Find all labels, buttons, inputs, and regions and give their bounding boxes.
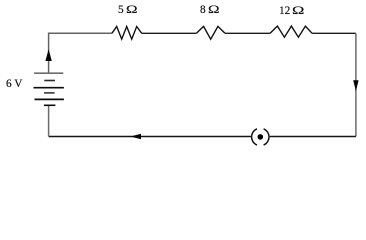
value label 12 ohm for R3: [279, 6, 290, 17]
wire: top rail left segment (top-left corner to R1): [49, 33, 112, 73]
wire: battery bottom stub: [48, 105, 50, 136]
battery B1 plate 6 short (bottom, negative): [44, 104, 56, 106]
wire: top rail R3 to top-right corner: [312, 32, 356, 34]
wire: top rail between R2 and R3: [225, 32, 270, 34]
wire: bottom rail right segment (meter to bottom-right corner): [270, 136, 356, 138]
current direction arrow down (right branch): [353, 80, 358, 91]
wire: right vertical (top-right corner down to bottom rail): [355, 33, 357, 136]
wire: bottom rail left segment (battery to meter): [49, 136, 251, 138]
resistor R3 12 ohm zigzag: [270, 26, 312, 37]
battery B1 plate 3 long: [34, 87, 64, 89]
ammeter M1 circle left arc: [252, 129, 257, 145]
value label 5 ohm for R1: [118, 5, 124, 16]
ammeter M1 center dot: [258, 134, 264, 140]
value label 8 ohm for R2: [200, 5, 206, 16]
current direction arrow up (left branch): [45, 49, 51, 61]
battery B1 plate 4 short: [44, 92, 55, 94]
wire: top rail between R1 and R2: [142, 32, 197, 34]
battery B1 plate 5 long: [35, 98, 64, 100]
value label 6 V for battery B1: [6, 79, 22, 90]
battery B1 plate 2 short: [44, 80, 55, 82]
resistor R1 5 ohm zigzag: [112, 27, 142, 40]
resistor R2 8 ohm zigzag: [196, 26, 225, 39]
current direction arrow left (bottom branch): [130, 134, 141, 140]
ammeter M1 circle right arc: [264, 129, 269, 145]
battery B1 plate 1 long (top, positive): [34, 72, 63, 74]
